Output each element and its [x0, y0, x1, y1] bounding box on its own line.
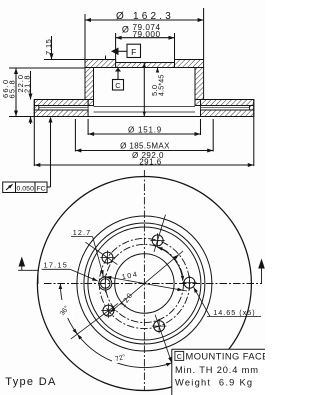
dimension dia 104 [102, 269, 187, 291]
dimension 5.0/4.5 [143, 63, 166, 117]
svg-text:Type DA: Type DA [5, 376, 56, 388]
leader 14.65 x5 [194, 287, 261, 317]
circle dia 151.9 [88, 227, 201, 340]
svg-text:12.7: 12.7 [73, 228, 91, 237]
front view vertical centreline [143, 170, 145, 391]
svg-text:C: C [177, 354, 182, 361]
svg-text:14.65 (x5): 14.65 (x5) [213, 308, 255, 317]
datum flag F [111, 44, 141, 57]
runout tolerance frame 0.050 FC [3, 117, 53, 193]
section friction ring [34, 100, 254, 117]
dimension 22.0/21.8 [16, 71, 32, 124]
dimension dia 292.0/291.6 [34, 117, 254, 168]
leader 17.15 [42, 261, 98, 281]
pin circle dia 104 [105, 244, 183, 322]
svg-text:4.5*45: 4.5*45 [159, 75, 166, 96]
bolt circle dia 120 [99, 238, 189, 328]
label Type DA [5, 376, 56, 388]
angle dimensions 36 and 72 deg [58, 284, 172, 368]
leader 12.7 [71, 228, 104, 276]
dimension dia 162.3 [85, 8, 204, 60]
svg-text:79.000: 79.000 [132, 30, 160, 39]
section arrow left [18, 257, 38, 285]
svg-text:17.15: 17.15 [44, 261, 69, 270]
dimension 7.15 [44, 36, 106, 60]
circle dia 185.5 [77, 216, 212, 351]
outer circle dia 292 [37, 177, 251, 391]
svg-text:0.050: 0.050 [16, 185, 34, 192]
svg-text:Min. TH 20.4 mm: Min. TH 20.4 mm [175, 365, 259, 375]
svg-text:F: F [131, 47, 136, 57]
svg-text:C: C [115, 81, 121, 90]
svg-text:FC: FC [36, 185, 45, 192]
pin hole 12.7/17.15 [99, 275, 112, 293]
dimension 66.0/65.8 [1, 68, 85, 117]
dimension dia 120 [106, 251, 183, 316]
svg-text:Ø 162.3: Ø 162.3 [116, 11, 174, 22]
bolt holes 14.65 x5 [100, 233, 196, 333]
dimension dia 185.5MAX [75, 119, 213, 153]
section hat top plate [85, 60, 204, 68]
hub bore circle dia 79 [115, 254, 174, 313]
svg-text:Weight 6.9 Kg: Weight 6.9 Kg [175, 377, 253, 387]
dimension dia 79.074/79.000 [116, 23, 175, 63]
radial lines to bolt holes [71, 215, 184, 363]
svg-text:Ø: Ø [122, 25, 129, 35]
svg-text:21.8: 21.8 [23, 74, 32, 93]
svg-text:MOUNTING FACE: MOUNTING FACE [186, 352, 266, 362]
svg-text:Ø 151.9: Ø 151.9 [128, 125, 162, 134]
svg-text:291.6: 291.6 [139, 158, 162, 167]
dimension dia 151.9 [88, 119, 200, 136]
section arrow right [258, 259, 265, 284]
svg-text:Ø 185.5MAX: Ø 185.5MAX [120, 142, 170, 151]
circle dia 162.3 [84, 223, 205, 344]
datum flag C [113, 68, 124, 91]
section hat walls [85, 68, 204, 106]
note mounting face box [172, 349, 269, 395]
front view horizontal centreline [44, 283, 262, 285]
